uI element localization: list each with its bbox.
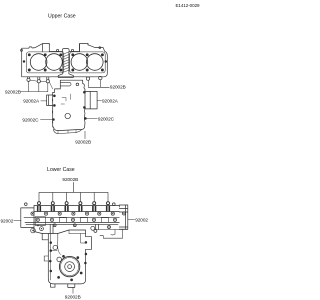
mount boss circle 1 <box>27 78 30 81</box>
small circle upper <box>53 245 57 249</box>
head bolt dots top row <box>28 54 30 56</box>
bay tabs between row3 bolts <box>59 218 108 223</box>
under-case right boss <box>108 226 111 229</box>
svg-text:Lower Case: Lower Case <box>47 167 75 173</box>
oil passage circle <box>65 113 70 118</box>
cam chain tunnel <box>58 52 73 78</box>
skirt feet ticks <box>58 130 76 134</box>
right end lug <box>119 205 128 229</box>
bottom skirt <box>54 129 82 134</box>
bottom view outline <box>53 80 85 130</box>
bolt dots right edge <box>83 91 85 93</box>
edge bolt dots left <box>50 242 52 244</box>
svg-text:92002: 92002 <box>1 218 14 223</box>
case horizontal lines <box>24 212 119 225</box>
mount boss circle 3 <box>46 80 49 83</box>
cam tunnel slot at top <box>60 82 71 86</box>
leader 92002C right <box>86 117 97 119</box>
cylinder jacket left pair <box>26 52 64 73</box>
leader 92002B bottom <box>84 131 86 138</box>
interior ledge lines <box>50 234 85 251</box>
end wall dots <box>23 61 25 63</box>
cylinder jacket right pair <box>70 52 106 73</box>
leader 92002 right <box>128 219 135 221</box>
leader 92002B bottom <box>72 287 74 293</box>
bolt hole top-left corner <box>21 49 23 51</box>
leader 92002C left <box>40 119 52 121</box>
inner sump wall <box>56 234 59 249</box>
flange bolt dots <box>58 276 60 278</box>
small circle mid <box>57 257 62 262</box>
svg-text:92002B: 92002B <box>62 177 78 182</box>
mount boss stems below block <box>28 77 49 80</box>
bottom feet <box>51 284 75 288</box>
under-case left boss <box>40 227 44 231</box>
tab post left <box>43 44 50 52</box>
leader to 92002B left <box>21 81 48 91</box>
svg-text:Upper Case: Upper Case <box>48 14 76 20</box>
right tab (92002A) <box>85 91 97 109</box>
bracket to right lug <box>97 230 128 239</box>
case side edges <box>118 206 120 208</box>
bolt hole small on step <box>99 47 101 49</box>
svg-text:92002: 92002 <box>135 217 148 222</box>
svg-text:92002C: 92002C <box>22 117 39 122</box>
edge bolt dots right <box>85 242 87 244</box>
stud top circles <box>38 202 110 205</box>
head bolt dots bottom row <box>28 69 30 71</box>
left notch mid <box>44 256 48 261</box>
svg-text:92002A: 92002A <box>23 99 40 104</box>
svg-text:92002B: 92002B <box>5 90 21 95</box>
boss shelf contour <box>30 80 53 89</box>
cam chain tunnel hatching <box>63 52 69 73</box>
oil pump cover inner ring <box>61 258 79 276</box>
svg-text:92002C: 92002C <box>98 116 115 121</box>
interior detail lines <box>61 94 71 104</box>
inner left edge <box>49 234 51 281</box>
right hook leg <box>111 230 115 235</box>
left tab (92002A) <box>47 95 53 106</box>
leader 92002A right <box>97 100 101 102</box>
cylinder bore 2 <box>46 54 63 71</box>
leader 92002A left <box>41 100 47 102</box>
bolt circles row 2 <box>31 212 34 215</box>
leader 92002 left <box>14 220 21 222</box>
left interior box <box>35 217 45 226</box>
case top edge <box>34 205 119 207</box>
top-left step <box>42 234 48 240</box>
left edge bumps <box>51 99 54 124</box>
stud hole notches on top edge <box>57 49 59 51</box>
cylinder bore 4 <box>87 54 104 71</box>
tab post right <box>80 44 89 52</box>
mount boss circle 2 <box>37 80 40 83</box>
bolt circles row 3 <box>36 218 39 221</box>
svg-text:92002A: 92002A <box>102 99 119 104</box>
leader bus from 92002B <box>39 182 108 201</box>
left end flange <box>21 206 42 234</box>
right mount boss circles under block <box>88 76 100 78</box>
svg-text:92002B: 92002B <box>75 140 91 145</box>
oil pump center <box>68 265 72 269</box>
oil pump inner circle <box>65 262 75 272</box>
top small hole <box>76 83 79 86</box>
sump leg left <box>50 224 53 233</box>
bolt circle center dots row 2 <box>32 213 125 221</box>
leader 92002B right top <box>88 80 109 88</box>
bottom flange small circles <box>53 224 56 227</box>
cylinder bore 1 <box>30 54 47 71</box>
sump leg right <box>96 224 99 229</box>
svg-text:92002B: 92002B <box>65 294 81 299</box>
cylinder bore 3 <box>71 54 88 71</box>
oil pump cover outer <box>59 256 79 276</box>
top view outline <box>22 44 108 77</box>
bolt dots left edge <box>53 95 55 97</box>
sump wall arc <box>58 248 61 255</box>
svg-text:92002B: 92002B <box>110 85 126 90</box>
right boss cluster at sump top <box>91 226 95 230</box>
bottom view outline <box>48 230 91 284</box>
svg-text:E1412-0029: E1412-0029 <box>175 3 200 8</box>
left boss circle below flange <box>31 228 36 233</box>
inner top lines <box>69 230 86 234</box>
stud shanks <box>37 206 110 212</box>
end stud circles <box>25 203 28 206</box>
